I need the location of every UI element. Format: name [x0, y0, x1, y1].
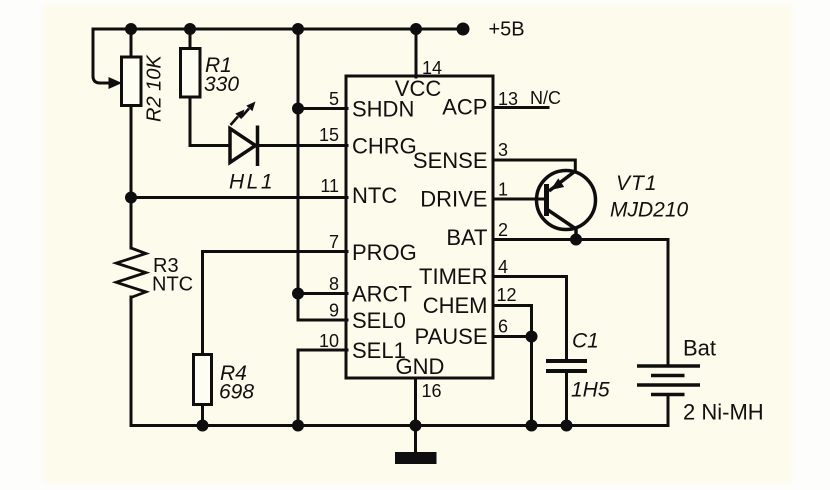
junction VCC at rail [410, 23, 422, 35]
wire R3 bottom to ground rail [130, 297, 133, 426]
terminal +5B [457, 23, 470, 36]
svg-text:ARCT: ARCT [352, 282, 412, 307]
junction SEL1 at ground rail [292, 420, 304, 432]
svg-text:14: 14 [422, 58, 442, 78]
svg-text:9: 9 [329, 301, 339, 321]
svg-text:PROG: PROG [352, 240, 417, 265]
ground symbol [395, 452, 437, 464]
wire R1 top lead [189, 29, 192, 49]
svg-text:MJD210: MJD210 [610, 199, 689, 222]
junction VT1 collector at BAT wire [570, 234, 582, 246]
wire SEL1 pin 10 to ground rail [298, 350, 347, 426]
junction NTC node [125, 192, 137, 204]
wire R2 wiper feedback to +5V rail [93, 29, 110, 83]
svg-text:698: 698 [219, 381, 254, 404]
wire VCC pin 14 [415, 29, 418, 77]
svg-text:SENSE: SENSE [413, 148, 488, 173]
svg-text:3: 3 [498, 140, 508, 160]
wire SENSE pin 3 to VT1 emitter [493, 160, 575, 172]
junction GND at ground rail [410, 420, 422, 432]
resistor R1 body [181, 49, 201, 98]
wire +5V branch vertical to SEL0 [298, 29, 347, 320]
thermistor R3 zigzag [116, 248, 146, 298]
svg-text:VT1: VT1 [616, 172, 658, 195]
svg-text:SHDN: SHDN [352, 97, 414, 122]
svg-text:HL1: HL1 [229, 171, 275, 194]
svg-text:CHRG: CHRG [352, 134, 417, 159]
wire R2 bottom lead to NTC node [130, 105, 133, 198]
junction CHEM at ground rail [526, 420, 538, 432]
wire PROG pin 7 to R4 top [203, 252, 348, 356]
svg-text:12: 12 [497, 285, 517, 305]
wire NTC pin 11 [131, 196, 347, 199]
wire battery negative to ground rail [667, 395, 670, 426]
svg-text:8: 8 [329, 274, 339, 294]
svg-text:N/C: N/C [530, 88, 561, 108]
svg-text:ACP: ACP [442, 95, 487, 120]
junction R1 top at +5V rail [184, 23, 196, 35]
junction R4 at ground rail [197, 420, 209, 432]
wire PAUSE pin 6 [493, 335, 532, 338]
junction PAUSE branch [526, 331, 538, 343]
wire CHEM pin 12 to ground rail [493, 306, 532, 426]
junction SHDN branch [292, 103, 304, 115]
potentiometer R2 wiper arrowhead [109, 77, 123, 89]
transistor VT1 [537, 171, 596, 240]
wire SHDN pin 5 [298, 107, 347, 110]
svg-text:330: 330 [204, 73, 239, 96]
svg-text:TIMER: TIMER [419, 264, 487, 289]
svg-text:7: 7 [329, 232, 339, 252]
wire R1 bottom lead to LED anode [190, 96, 230, 146]
svg-text:SEL0: SEL0 [352, 308, 406, 333]
junction +5V branch at rail [292, 23, 304, 35]
potentiometer R2 body [122, 57, 142, 106]
svg-text:2: 2 [498, 220, 508, 240]
svg-text:C1: C1 [572, 330, 599, 353]
svg-text:4: 4 [498, 257, 508, 277]
capacitor C1 [546, 361, 587, 371]
svg-text:+5B: +5B [489, 19, 525, 41]
wire DRIVE pin 1 to VT1 base [493, 198, 547, 201]
junction R2 top at +5V rail [125, 23, 137, 35]
wire R4 bottom to ground rail [201, 405, 204, 426]
wire ARCT pin 8 [298, 292, 347, 295]
svg-text:2 Ni-MH: 2 Ni-MH [683, 400, 764, 425]
wire R2 top lead [130, 29, 133, 58]
wire ground bottom rail [131, 424, 668, 427]
svg-text:SEL1: SEL1 [352, 338, 406, 363]
svg-text:CHEM: CHEM [423, 293, 488, 318]
svg-text:NTC: NTC [152, 274, 193, 296]
wire +5V top rail [93, 28, 463, 31]
svg-text:16: 16 [422, 381, 442, 401]
svg-text:PAUSE: PAUSE [415, 324, 488, 349]
wire LED cathode to CHRG pin 15 [258, 144, 348, 147]
wire BAT pin 2 to battery positive [493, 240, 668, 367]
svg-text:10: 10 [319, 331, 339, 351]
svg-text:6: 6 [498, 317, 508, 337]
svg-text:1H5: 1H5 [571, 379, 610, 402]
svg-text:Bat: Bat [683, 336, 716, 361]
wire NTC node to R3 top [130, 198, 133, 249]
battery Bat [637, 366, 700, 395]
svg-text:BAT: BAT [446, 225, 487, 250]
svg-text:5: 5 [329, 89, 339, 109]
junction ARCT branch [292, 288, 304, 300]
svg-text:1: 1 [498, 180, 508, 200]
LED HL1 [230, 126, 258, 167]
svg-text:11: 11 [320, 176, 339, 196]
resistor R4 body [194, 355, 212, 405]
svg-text:NTC: NTC [352, 183, 397, 208]
wire ACP pin 13 N/C stub [493, 106, 548, 109]
LED HL1 light arrows [231, 102, 256, 126]
svg-text:R2 10K: R2 10K [144, 54, 166, 122]
wire TIMER pin 4 to C1 top [493, 277, 567, 362]
junction C1 at ground rail [561, 420, 573, 432]
wire C1 bottom to ground rail [565, 371, 568, 426]
wire ground symbol lead [414, 426, 417, 454]
wire GND pin 16 [414, 378, 417, 426]
svg-text:15: 15 [319, 125, 339, 145]
svg-text:13: 13 [498, 89, 518, 109]
IC U1 body [346, 76, 493, 378]
svg-text:DRIVE: DRIVE [420, 187, 487, 212]
